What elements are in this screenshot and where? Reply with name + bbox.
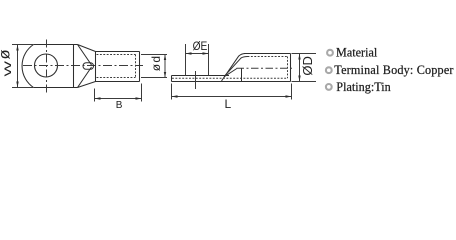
dim L: dimension line	[172, 96, 292, 98]
dim OD: extension lines	[292, 54, 317, 82]
svg-text:Plating:Tin: Plating:Tin	[336, 80, 390, 94]
bullet 2	[326, 67, 332, 73]
left view: bore hidden dashes	[97, 55, 136, 78]
dim W: extension lines	[12, 45, 33, 88]
left view: palm end vertical line	[73, 45, 75, 88]
side view: ramp inner line	[225, 57, 248, 76]
side view: mouth vertical line	[241, 68, 243, 81]
svg-text:ø: ø	[0, 49, 13, 59]
side view: bore bottom dashed	[172, 77, 288, 79]
left view: barrel rectangle	[96, 52, 140, 82]
left view: stud hole circle	[35, 54, 58, 77]
arrow od top	[164, 55, 166, 61]
arrow B right	[136, 97, 142, 99]
left view: inspection capsule	[83, 63, 94, 70]
arrow od bottom	[164, 72, 166, 78]
svg-text:Material: Material	[336, 46, 378, 60]
side view: barrel top line	[244, 53, 291, 55]
bullet 1	[327, 50, 333, 56]
dim OD: dimension line	[299, 54, 301, 82]
arrow OE right	[203, 52, 209, 54]
side view: flare cone lower edge	[224, 68, 237, 76]
dim od: extension lines	[141, 55, 167, 78]
dim od: dimension line	[164, 55, 166, 78]
arrow OE left	[186, 52, 192, 54]
side view: bore end dashed vertical	[287, 57, 289, 79]
left view: ring outer contour	[22, 45, 77, 88]
side view: barrel centerline	[237, 67, 294, 69]
svg-text:ØE: ØE	[193, 40, 208, 53]
svg-text:ØD: ØD	[300, 56, 315, 76]
svg-text:W: W	[2, 61, 13, 77]
side view: barrel end cap	[290, 54, 292, 82]
arrow L right	[286, 95, 292, 97]
svg-text:Terminal Body: Copper: Terminal Body: Copper	[334, 63, 453, 77]
dim L: extension lines	[172, 84, 292, 100]
svg-text:ød: ød	[149, 55, 163, 72]
dim OE: dimension line	[186, 53, 209, 55]
side view: ramp outer curve	[222, 54, 248, 82]
dim OE: extension lines	[186, 44, 209, 76]
bullet 3	[326, 84, 332, 90]
arrow OD bottom	[298, 76, 300, 82]
svg-text:B: B	[116, 100, 123, 111]
dim B: extension lines	[95, 84, 142, 102]
dim B: dimension line	[95, 98, 142, 100]
side view: tongue	[172, 76, 291, 82]
arrow B left	[95, 97, 101, 99]
left view: vertical centerline	[46, 40, 48, 94]
dim W: dimension line	[17, 45, 19, 88]
left view: horizontal centerline	[23, 65, 143, 67]
side view: hole centerline	[195, 71, 197, 89]
left view: cone transition diagonals	[78, 45, 96, 88]
arrow W top	[16, 45, 18, 51]
side view: bore top dashed	[248, 56, 288, 58]
arrow OD top	[298, 54, 300, 60]
arrow L left	[172, 95, 178, 97]
arrow W bottom	[16, 82, 18, 88]
svg-text:L: L	[225, 97, 232, 111]
